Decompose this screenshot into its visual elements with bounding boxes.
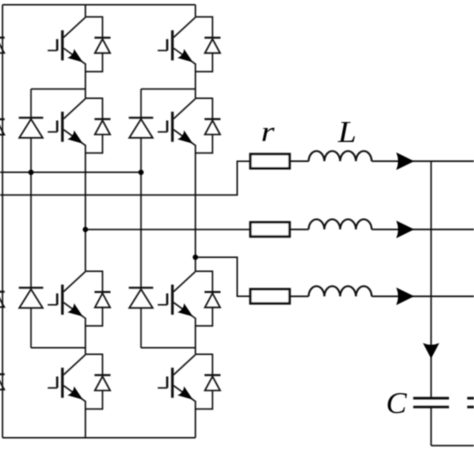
svg-text:L: L [337, 114, 357, 149]
svg-text:C: C [386, 385, 407, 420]
svg-text:r: r [261, 116, 275, 148]
